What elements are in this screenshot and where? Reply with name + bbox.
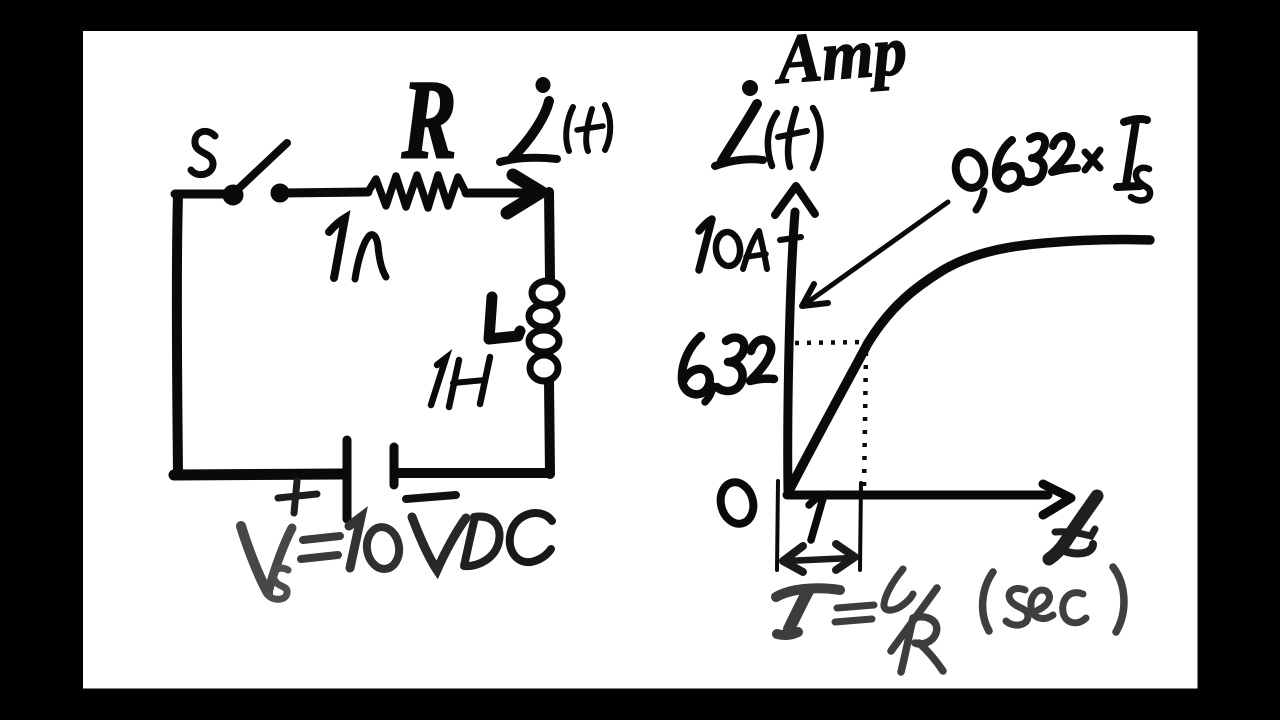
label 1 (t = 1) [809,495,824,540]
wire top-left segment to switch [175,190,228,199]
battery - terminal label [406,495,456,499]
label t on x-axis (hand strokes) [1049,496,1097,559]
wire right vertical top (arrow to inductor) [549,192,550,278]
tau double arrow [783,544,855,572]
current arrow iL(t) head [507,175,541,213]
label tau = L/R [776,569,943,672]
inductor L (coil) [529,281,562,381]
svg-text:Amp: Amp [771,11,909,99]
response curve iL(t) [790,240,1150,489]
svg-text:R: R [401,59,456,182]
wire left vertical [177,196,178,473]
wire switch to resistor [282,192,368,193]
wire bottom left segment [174,474,342,475]
tau interval marker line right [860,483,861,570]
tau interval marker line left [777,481,778,570]
label VS = 10 VDC [241,513,552,599]
label iL(t) on y-axis (hand strokes) [715,80,821,168]
battery VS plates [347,440,394,519]
label S [191,131,215,174]
switch S (pivot dot, lever, contact dot) [223,143,289,205]
annotation arrow from 0,632 label to axis [802,202,948,306]
label O (origin) [716,479,757,527]
label L [489,297,520,339]
y-axis (current axis) [775,186,815,491]
label 1H [431,357,490,407]
x-axis (time axis) [787,484,1071,515]
dotted line at 6,32 level [795,342,868,343]
label (sec) [983,567,1124,632]
resistor R (zigzag) [368,175,466,208]
label 1 ohm (resistor value) [329,218,386,279]
battery + terminal label [278,481,317,513]
wire resistor to arrow [466,189,535,198]
tick 10A [780,237,801,240]
wire bottom right segment [399,468,550,478]
wire right vertical bottom (inductor to corner) [549,382,550,474]
label 10A [699,219,767,270]
dotted line at t = 1 [864,352,866,490]
label 6,32 [682,336,774,402]
label iL(t) circuit (hand strokes) [500,77,610,162]
label 0,632 x IS [952,119,1150,210]
